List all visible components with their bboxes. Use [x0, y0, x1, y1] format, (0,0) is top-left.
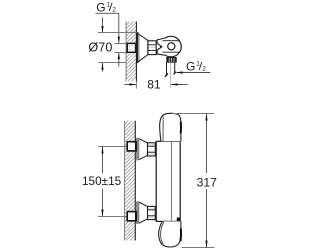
top handle grip band — [180, 122, 182, 134]
G 1/2 leader underline — [96, 12, 120, 14]
G1/2 dim arrow upper (points down to thread top) — [118, 33, 120, 43]
thread fitting rect bottom union — [127, 212, 136, 221]
thermostat body — [156, 141, 180, 221]
G 1/2 arrow to pipe — [177, 72, 211, 74]
wall (top view) hatching — [126, 21, 136, 81]
pipe break tick right — [174, 72, 177, 75]
extension line L2 (thread top) — [114, 43, 127, 45]
bottom handle grip band — [179, 229, 182, 242]
body detail square — [177, 218, 180, 222]
union nut (top view) — [148, 41, 156, 55]
317 extension line top — [173, 113, 215, 115]
supply / extension line (bottom union) — [98, 216, 127, 218]
head chord lines — [163, 40, 180, 42]
Ø70 dim arrow lower (points up to L4) — [102, 63, 104, 71]
svg-text:G: G — [186, 60, 195, 74]
svg-text:G: G — [96, 1, 105, 15]
union elbow plate outline — [157, 38, 164, 55]
bottom knurled nut — [148, 206, 156, 219]
svg-text:2: 2 — [202, 66, 206, 73]
dim 81: left arrow — [124, 84, 136, 86]
escutcheon flange line — [136, 33, 138, 63]
wall surface line (top view) — [135, 22, 137, 82]
Ø70 dim arrow upper (points down to L1) — [102, 17, 104, 32]
317 dimension line + arrows — [206, 114, 208, 174]
extension line L3 (thread bottom) — [114, 52, 127, 54]
dim 81: right arrow — [171, 84, 187, 86]
body internal line — [171, 142, 173, 222]
bottom escutcheon (front view) — [136, 201, 138, 224]
svg-text:150±15: 150±15 — [82, 174, 122, 188]
knurled nut below head (top view) — [167, 57, 177, 62]
thread inner dashes — [128, 45, 135, 47]
wall (lower view) hatching — [125, 121, 136, 241]
svg-text:1: 1 — [107, 2, 111, 9]
outlet pipe (top view, broken) — [166, 62, 168, 76]
bottom handle inner line — [161, 222, 164, 245]
extension line L1 (escutcheon top) — [98, 32, 139, 34]
svg-text:317: 317 — [197, 175, 218, 189]
wall surface extension for 81 dim — [135, 81, 137, 88]
head screw circle — [168, 43, 175, 50]
svg-text:1: 1 — [196, 61, 200, 68]
thread fitting rect top union — [127, 142, 136, 151]
escutcheon (top view side profile) — [137, 33, 148, 63]
supply / extension line (top union) — [98, 146, 127, 148]
svg-text:2: 2 — [112, 7, 116, 14]
wall left edge (lower view) — [124, 121, 126, 241]
pipe centerline — [170, 62, 172, 88]
G 1/2 leader stem down — [118, 13, 120, 33]
svg-text:Ø70: Ø70 — [88, 40, 112, 54]
top escutcheon (front view) — [136, 138, 138, 161]
extension line L4 (escutcheon bottom) — [98, 62, 126, 64]
wall left edge (top view) — [125, 22, 127, 82]
svg-text:81: 81 — [147, 78, 161, 92]
G1/2 dim arrow lower (points up to thread bottom) — [118, 53, 120, 67]
top knurled nut — [148, 143, 156, 156]
wall surface line (lower view) — [134, 121, 136, 241]
bottom handle — [159, 221, 181, 247]
thread fitting rect in wall (top view) — [127, 43, 135, 52]
pipe break tick left — [165, 73, 168, 76]
union elbow plate mask — [157, 38, 165, 56]
317 extension line bottom — [182, 247, 215, 249]
union elbow head circle (top view) — [161, 36, 182, 57]
top handle — [160, 113, 181, 141]
150±15 dimension line + arrows — [102, 147, 104, 174]
top handle inner line — [162, 116, 164, 141]
